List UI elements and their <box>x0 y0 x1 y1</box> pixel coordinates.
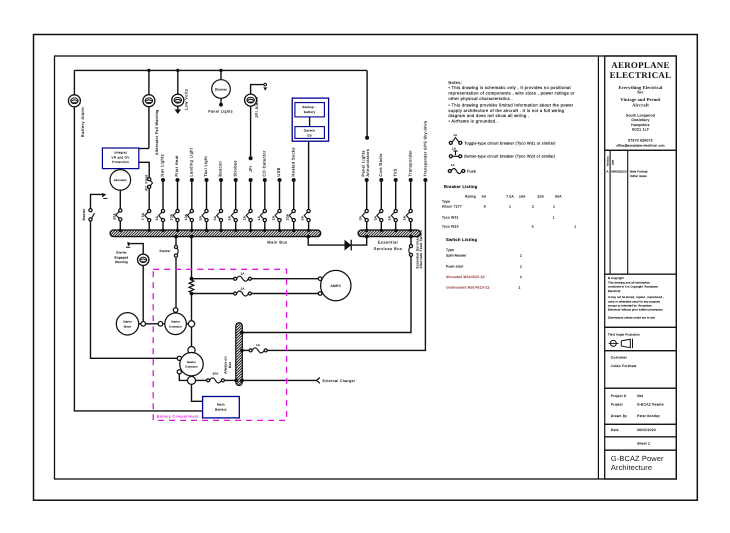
svg-text:10A: 10A <box>519 195 526 199</box>
breaker 10A (Pitot Heat) <box>176 209 179 212</box>
svg-text:G5: G5 <box>307 133 312 137</box>
breaker 5A (TkS) <box>394 209 397 212</box>
svg-text:representation of componen: representation of components , wire size… <box>448 91 575 96</box>
svg-text:Panel Lights: Panel Lights <box>208 110 233 114</box>
svg-text:Alternator: Alternator <box>114 179 127 182</box>
svg-text:10A: 10A <box>184 213 188 220</box>
svg-text:© Copyright: © Copyright <box>608 277 624 280</box>
wire: breaker to Main Bus (Beacon) <box>220 222 222 230</box>
svg-text:1A: 1A <box>240 272 244 276</box>
fuse 20A (battery to Always-on Bus) <box>207 379 210 382</box>
svg-text:except as intended by 'Ae: except as intended by 'Aeroplane <box>608 305 652 308</box>
svg-text:G-BCAZ Rewire: G-BCAZ Rewire <box>637 403 664 407</box>
breaker 3A (Panel Lights Annunciators) <box>365 209 368 212</box>
wire: Starter Engaged Warning lamp to airframe arrow <box>131 244 143 255</box>
svg-text:Master: Master <box>187 361 196 364</box>
svg-text:Battery Alarm: Battery Alarm <box>80 107 85 137</box>
svg-text:Annunciators: Annunciators <box>365 149 370 177</box>
node: Com Radio <box>379 178 383 182</box>
wire: right post down to Master Contactor <box>191 327 193 346</box>
svg-text:Julian Forshaw: Julian Forshaw <box>611 364 637 368</box>
legend: button-type circuit breaker symbol <box>449 147 556 159</box>
svg-text:Alternator Fail Warning: Alternator Fail Warning <box>155 109 159 155</box>
generator G1: Alternator <box>119 169 121 170</box>
battery compartment boundary (dashed) <box>153 269 286 420</box>
wire: Master switch to airframe arrow <box>91 194 103 208</box>
wire: JPI Alarm lamp to JPI node <box>250 106 252 156</box>
svg-text:Drawn By: Drawn By <box>611 414 627 418</box>
svg-text:JPI: JPI <box>248 165 253 172</box>
junction: 20A fuse at Always-on Bus <box>234 379 238 383</box>
svg-text:Unshrouded MSU4523-22: Unshrouded MSU4523-22 <box>446 285 490 289</box>
wire: bus to alternate feed switch <box>410 237 412 245</box>
terminal: Master Contactor coil lower <box>177 370 181 374</box>
svg-text:• Airframe is grounded .: • Airframe is grounded . <box>448 119 498 124</box>
svg-text:Toggle-type circuit breake: Toggle-type circuit breaker (Tyco W31 or… <box>464 141 556 145</box>
wire: breaker to Main Bus (CO Detector) <box>264 222 266 230</box>
wire: Always-on Bus to External Charger <box>242 379 316 381</box>
wire: Dimmer to Panel Lights node <box>220 98 222 103</box>
svg-text:1: 1 <box>520 253 522 257</box>
terminal: Master Contactor top post <box>188 347 195 354</box>
svg-text:Backup -: Backup - <box>302 105 316 109</box>
svg-text:ELECTRICAL: ELECTRICAL <box>610 70 672 80</box>
wire: shunt to starter contactor right post <box>191 294 193 321</box>
svg-text:Starter: Starter <box>171 321 180 324</box>
svg-text:1: 1 <box>553 205 555 209</box>
junction: Strobes breaker to Main Bus <box>234 229 237 232</box>
breaker 5A (Beacon) <box>219 209 222 212</box>
wire: Main Bus to diode <box>308 237 344 246</box>
svg-text:Sheet 1: Sheet 1 <box>637 441 650 445</box>
junction: rail to Low Volts lamp <box>176 69 179 72</box>
wire: Garmin G5 branch to breaker <box>308 141 310 209</box>
breaker 7.5A (alt field) <box>148 209 151 212</box>
meter M2: AMPS ammeter <box>321 270 351 300</box>
svg-text:TkS: TkS <box>392 168 397 176</box>
switch: Alt. Field <box>148 178 151 181</box>
svg-text:5A: 5A <box>155 215 159 220</box>
diode D1 <box>345 240 352 251</box>
svg-text:Alternate Feed Switch: Alternate Feed Switch <box>419 230 423 269</box>
terminal: starter contactor right post <box>188 321 194 327</box>
svg-text:Starter: Starter <box>123 321 132 324</box>
title block: sheet box <box>605 437 677 450</box>
svg-text:Contactor: Contactor <box>185 366 198 369</box>
svg-text:supply architecture of th: supply architecture of the aircraft . It… <box>448 108 564 113</box>
svg-text:Strobes: Strobes <box>232 160 237 176</box>
notes text block <box>448 80 575 124</box>
junction: Transponder breaker to Essential Services Bus <box>409 229 412 232</box>
svg-text:1A: 1A <box>240 287 244 291</box>
svg-text:Dimensions unless noted a: Dimensions unless noted are in mm <box>608 316 656 319</box>
wire: Alt Field switch to breaker <box>148 188 150 209</box>
wire: breaker to Essential Services Bus (Panel Lights Annunciators) <box>366 222 368 230</box>
wire: Heated Socks to breaker <box>293 182 295 209</box>
airframe connection arrow at Starter Engaged Warning <box>127 242 131 246</box>
svg-text:2: 2 <box>532 205 534 209</box>
breaker 5A (Strobes) <box>234 209 237 212</box>
terminal: starter contactor left post <box>158 322 163 327</box>
svg-text:1: 1 <box>553 216 555 220</box>
wire: Pitot Heat to breaker <box>177 182 179 209</box>
wire: breaker to Essential Services Bus (TkS) <box>395 222 397 230</box>
svg-text:Project: Project <box>611 403 623 407</box>
svg-text:Contactor: Contactor <box>169 325 182 328</box>
svg-text:Main Bus: Main Bus <box>267 240 287 244</box>
diode D1 feed: junction on Main Bus <box>306 235 310 239</box>
svg-text:Alt. Field: Alt. Field <box>145 175 149 191</box>
regulator U1: Integral VR and OV Protection box <box>102 148 138 169</box>
svg-text:10A: 10A <box>170 213 174 220</box>
wire: breaker to Essential Services Bus (Com Radio) <box>380 222 382 230</box>
wire: Low Volts lamp drop <box>177 70 179 94</box>
junction: diode feed at Essential Services Bus <box>365 235 369 239</box>
svg-text:diagram and does not show: diagram and does not show all wiring . <box>448 113 529 118</box>
svg-text:JPI Alarm: JPI Alarm <box>254 96 259 118</box>
svg-text:Dimmer: Dimmer <box>215 87 227 91</box>
fuse 1A (ammeter bottom) <box>234 292 237 295</box>
svg-text:Tyco W31: Tyco W31 <box>442 216 459 220</box>
svg-text:Initial Issue: Initial Issue <box>630 174 647 178</box>
breaker 2A (JPI branch) <box>249 209 252 212</box>
breaker 2A (USB) <box>278 209 281 212</box>
wire: breaker to Main Bus (JPI branch) <box>250 222 252 230</box>
ground symbol below Low Volts lamp <box>175 109 182 114</box>
breaker 3A (Transponder) <box>409 209 412 212</box>
svg-text:Breaker Listing: Breaker Listing <box>444 184 478 189</box>
title block: project box <box>605 388 677 424</box>
svg-text:1: 1 <box>519 285 521 289</box>
svg-text:Landing Light: Landing Light <box>189 147 194 176</box>
svg-text:USB: USB <box>276 167 281 176</box>
drawing inner border frame <box>55 56 677 479</box>
junction: alternator feed to Main Bus <box>119 229 122 232</box>
off-page connector: External Charger <box>317 378 320 384</box>
svg-text:VR and OV: VR and OV <box>112 155 131 159</box>
svg-text:Hampshire: Hampshire <box>631 123 650 127</box>
node: Landing Light <box>190 178 194 182</box>
wire: breaker to Main Bus (Heated Socks) <box>293 222 295 230</box>
junction: external charger at Always-on Bus <box>240 379 244 383</box>
terminal: Master Contactor bottom post <box>188 376 196 384</box>
svg-text:Taxi Light: Taxi Light <box>203 155 208 176</box>
svg-text:This drawing and all infor: This drawing and all information <box>608 281 650 284</box>
svg-text:Bus: Bus <box>228 362 232 369</box>
wire: left post to Starter Contactor <box>163 323 165 325</box>
svg-text:07970 626075: 07970 626075 <box>628 138 653 142</box>
wire: Backup Battery to Garmin G5 <box>309 117 311 127</box>
breaker 5A (Garmin G5 branch) <box>307 209 310 212</box>
svg-text:3A: 3A <box>403 215 407 220</box>
breaker 5A (Nav Lights) <box>161 209 164 212</box>
lamp: Battery Alarm <box>68 95 80 107</box>
breaker 20A (Heated Socks) <box>292 209 295 212</box>
wire: CO Detector to breaker <box>264 182 266 209</box>
svg-text:Owslebury: Owslebury <box>631 118 649 122</box>
svg-text:AMPS: AMPS <box>331 284 342 288</box>
node: Panel Lights Annunciators <box>365 178 369 182</box>
svg-text:Battery Compartment: Battery Compartment <box>157 415 199 419</box>
svg-text:20A: 20A <box>537 195 544 199</box>
junction: rail to Dimmer <box>219 69 222 72</box>
node: Strobes <box>234 178 238 182</box>
svg-text:CO Detector: CO Detector <box>262 150 267 177</box>
page outer border frame <box>34 35 698 501</box>
wire: Beacon to breaker <box>220 182 222 209</box>
component: Backup Battery <box>295 103 325 117</box>
svg-text:Peter Bentley: Peter Bentley <box>637 414 660 418</box>
switch: Starter (push-start) <box>174 245 177 248</box>
legend: fuse symbol <box>448 163 476 174</box>
wire: Taxi Light to breaker <box>206 182 208 209</box>
svg-text:External Charger: External Charger <box>323 379 356 383</box>
wire: battery alarm drop / battery negative return <box>73 70 75 94</box>
svg-text:Date: Date <box>612 159 615 165</box>
junction: Garmin G5 branch breaker to Main Bus <box>307 229 310 232</box>
svg-text:5A: 5A <box>213 215 217 220</box>
svg-text:Essential: Essential <box>378 241 398 245</box>
svg-text:Battery: Battery <box>304 110 316 114</box>
wire: breaker to Main Bus (Nav Lights) <box>162 222 164 230</box>
wire: Main Bus down to shunt <box>191 237 193 278</box>
svg-text:1A: 1A <box>256 343 260 347</box>
wire: Alternator Fail Warning lamp to VR box <box>148 70 150 94</box>
terminal: starter motor post <box>141 322 146 327</box>
wire: JPI Alarm to airframe stub <box>251 85 264 95</box>
svg-text:Garmin: Garmin <box>304 128 316 132</box>
contactor K1: Master Contactor <box>180 353 203 376</box>
svg-text:Nav Lights: Nav Lights <box>160 154 165 177</box>
svg-text:2A: 2A <box>272 215 276 220</box>
node: Pitot Heat <box>176 178 180 182</box>
node: CO Detector <box>263 178 267 182</box>
svg-text:7.5A: 7.5A <box>506 195 514 199</box>
wire: 50A breaker to Main Bus <box>119 221 121 230</box>
unit: Backup Battery + Garmin G5 outer enclosure <box>292 98 328 141</box>
wire: Starter switch to Starter Contactor coil <box>175 257 177 307</box>
wire: USB to breaker <box>279 182 281 209</box>
junction: USB breaker to Main Bus <box>278 229 281 232</box>
wire: breaker to Essential Services Bus (Transponder) <box>410 222 412 230</box>
svg-text:50A: 50A <box>555 195 562 199</box>
junction: Panel Lights Annunciators breaker to Essential Services Bus <box>365 229 368 232</box>
svg-text:Electrical' without prior wr: Electrical' without prior written permis… <box>608 309 663 312</box>
wire: Starter Engaged Warning lamp to starter feed <box>142 266 144 322</box>
svg-text:9: 9 <box>484 205 486 209</box>
wire: Landing Light to breaker <box>191 182 193 209</box>
svg-text:3A: 3A <box>359 215 363 220</box>
switch listing table <box>446 237 522 289</box>
svg-text:Pitot Heat: Pitot Heat <box>174 155 179 177</box>
svg-text:Notes:: Notes: <box>448 80 462 85</box>
svg-text:Starter: Starter <box>116 251 127 255</box>
node: Taxi Light <box>205 178 209 182</box>
svg-text:Electrical': Electrical' <box>608 290 621 293</box>
svg-text:It may not be stored, copied ,: It may not be stored, copied , reproduce… <box>608 296 664 299</box>
junction: 1A fuse at Always-on Bus <box>240 349 244 353</box>
svg-text:08/05/2020: 08/05/2020 <box>637 428 656 432</box>
svg-text:2A: 2A <box>243 215 247 220</box>
svg-text:Split-Master: Split-Master <box>446 253 467 257</box>
wire: JPI branch to breaker <box>250 182 252 209</box>
svg-text:Architecture: Architecture <box>611 463 652 472</box>
svg-text:Switch Listing: Switch Listing <box>446 237 477 242</box>
svg-text:G-BCAZ Power: G-BCAZ Power <box>611 454 664 463</box>
svg-text:5A: 5A <box>301 215 305 220</box>
svg-text:1: 1 <box>509 205 511 209</box>
title block: drawing title box <box>605 450 677 479</box>
wire: 20A fuse to Always-on Bus <box>225 379 236 381</box>
junction: Com Radio breaker to Essential Services Bus <box>380 229 383 232</box>
svg-text:Aircraft: Aircraft <box>632 103 649 108</box>
svg-text:5A: 5A <box>482 195 487 199</box>
junction: TkS breaker to Essential Services Bus <box>394 229 397 232</box>
svg-text:20A: 20A <box>286 213 290 220</box>
junction: shunt bottom <box>190 292 194 296</box>
wire: starter motor post to contactor post <box>146 323 159 325</box>
junction: alt field breaker to Main Bus <box>148 229 151 232</box>
wire: VR box to Alt Field switch <box>139 162 149 177</box>
svg-text:Type: Type <box>446 248 454 252</box>
svg-text:Push-start: Push-start <box>446 264 464 268</box>
node: Transponder GPS Sky-drive <box>423 178 427 182</box>
svg-text:Master: Master <box>82 208 86 221</box>
svg-text:Transponder GPS Sky-drive: Transponder GPS Sky-drive <box>423 121 427 177</box>
fuse 1A (ammeter top) <box>234 277 237 280</box>
contactor K2: Starter Contactor <box>165 313 187 335</box>
junction: Taxi Light breaker to Main Bus <box>205 229 208 232</box>
wire: bottom post to 20A fuse <box>196 379 207 381</box>
wire: coil lower to battery post <box>179 374 187 381</box>
wire: Main Bus to Starter switch <box>175 237 177 245</box>
wire: Strobes to breaker <box>235 182 237 209</box>
wire: breaker to Main Bus (Pitot Heat) <box>177 222 179 230</box>
wire: diode to Essential Services Bus <box>351 237 367 246</box>
title block: copyright box <box>605 274 677 327</box>
node: Beacon <box>219 178 223 182</box>
title block divider line <box>597 56 599 479</box>
svg-text:Revision: Revision <box>606 156 609 166</box>
wire: breaker to Main Bus (Strobes) <box>235 222 237 230</box>
wire: breaker to Main Bus (USB) <box>279 222 281 230</box>
junction: Nav Lights breaker to Main Bus <box>161 229 164 232</box>
svg-text:Main: Main <box>217 403 225 407</box>
svg-text:for: for <box>637 90 643 95</box>
svg-text:South Longwood: South Longwood <box>626 113 655 117</box>
svg-text:1A: 1A <box>453 133 457 137</box>
breaker listing table <box>442 184 576 229</box>
svg-text:1A: 1A <box>257 215 261 220</box>
wire: shunt bottom to ammeter fuse <box>192 293 234 295</box>
terminal: Master Contactor coil upper <box>177 356 181 360</box>
node: Transponder <box>409 178 413 182</box>
node: Nav Lights <box>161 178 165 182</box>
wire: Always-on Bus to 1A fuse <box>242 349 249 351</box>
svg-text:contained in it is Copyright: contained in it is Copyright 'Aeroplane <box>608 286 658 289</box>
svg-text:A: A <box>606 169 608 173</box>
svg-text:Protection: Protection <box>112 160 129 164</box>
lamp: Starter Engaged Warning <box>138 254 149 265</box>
junction: Main Bus main feed <box>190 235 194 239</box>
terminal: Starter Contactor coil top <box>173 308 178 313</box>
svg-text:Motor: Motor <box>124 325 131 328</box>
junction: rail to Alternator Fail Warning lamp <box>147 69 150 72</box>
svg-text:Rating: Rating <box>465 195 476 199</box>
svg-text:5A: 5A <box>388 215 392 220</box>
node: Panel Lights Annunciators feed <box>365 136 369 140</box>
switch: Master <box>89 209 92 212</box>
switch: Essential Services Alternate Feed Switch <box>409 245 412 248</box>
node: JPI branch <box>249 178 253 182</box>
svg-text:1: 1 <box>574 225 576 229</box>
junction: alternate feed at Always-on Bus <box>240 331 244 335</box>
svg-text:SO21 1LF: SO21 1LF <box>632 128 649 132</box>
wire: Alternator to 50A breaker <box>119 190 121 209</box>
svg-text:Services Bus: Services Bus <box>374 247 403 251</box>
svg-text:Battery: Battery <box>215 408 227 412</box>
svg-text:Shrouded MS24523-22: Shrouded MS24523-22 <box>446 275 485 279</box>
wire: Nav Lights to breaker <box>162 182 164 209</box>
svg-text:7.5A: 7.5A <box>141 212 145 220</box>
wire: Master switch to Master Contactor coil <box>91 221 178 358</box>
junction: Beacon breaker to Main Bus <box>219 229 222 232</box>
node: USB <box>278 178 282 182</box>
junction: Landing Light breaker to Main Bus <box>190 229 193 232</box>
svg-text:1: 1 <box>520 264 522 268</box>
wire: TkS to breaker <box>395 182 397 209</box>
node: Heated Socks <box>292 178 296 182</box>
svg-text:1A: 1A <box>451 163 455 167</box>
svg-text:094: 094 <box>637 394 643 398</box>
svg-text:Warning: Warning <box>115 260 128 264</box>
dimmer rheostat <box>212 80 231 99</box>
svg-text:Low Volts: Low Volts <box>184 89 189 110</box>
wire: Transponder to breaker <box>410 182 412 209</box>
svg-text:20A: 20A <box>213 372 219 376</box>
svg-text:• This drawing is schemati: • This drawing is schematic only . It pr… <box>448 85 570 90</box>
svg-text:Transponder: Transponder <box>407 150 412 177</box>
wire: breaker to Main Bus (Garmin G5 branch) <box>308 222 310 230</box>
junction: Essential Services Bus to alternate feed switch <box>409 235 413 239</box>
airframe connection arrow at Master switch <box>102 193 106 197</box>
breaker 5A (Taxi Light) <box>205 209 208 212</box>
junction: CO Detector breaker to Main Bus <box>263 229 266 232</box>
motor M1: Starter Motor <box>116 313 138 335</box>
wire: annunciator top rail <box>74 69 367 71</box>
svg-text:Beacon: Beacon <box>218 161 223 177</box>
breaker 1A (CO Detector) <box>263 209 266 212</box>
wire: shunt top to ammeter fuse <box>192 278 234 280</box>
svg-text:Button-type circuit breake: Button-type circuit breaker (Tyco W23 or… <box>464 155 556 159</box>
fuse 1A (always-on to Transponder GPS) <box>249 349 252 352</box>
svg-text:5A: 5A <box>373 215 377 220</box>
wire: Panel Lights Annunciators to breaker <box>366 182 368 209</box>
svg-text:Third Angle Projection: Third Angle Projection <box>608 332 640 336</box>
terminal: ammeter - <box>318 292 322 296</box>
svg-text:Klixon 7277: Klixon 7277 <box>442 205 462 209</box>
junction: Main Bus to Starter switch <box>174 235 178 239</box>
title block: date box <box>605 424 677 437</box>
wire: breaker to Main Bus (Taxi Light) <box>206 222 208 230</box>
breaker 50A (alternator) <box>119 209 122 212</box>
svg-text:Date: Date <box>611 428 619 432</box>
svg-text:• This drawing provides l: • This drawing provides limited informat… <box>448 103 573 108</box>
component: Garmin G5 <box>295 127 325 139</box>
svg-text:Project #: Project # <box>611 394 626 398</box>
terminal: ammeter + <box>318 277 322 281</box>
svg-text:Integral: Integral <box>114 151 127 155</box>
